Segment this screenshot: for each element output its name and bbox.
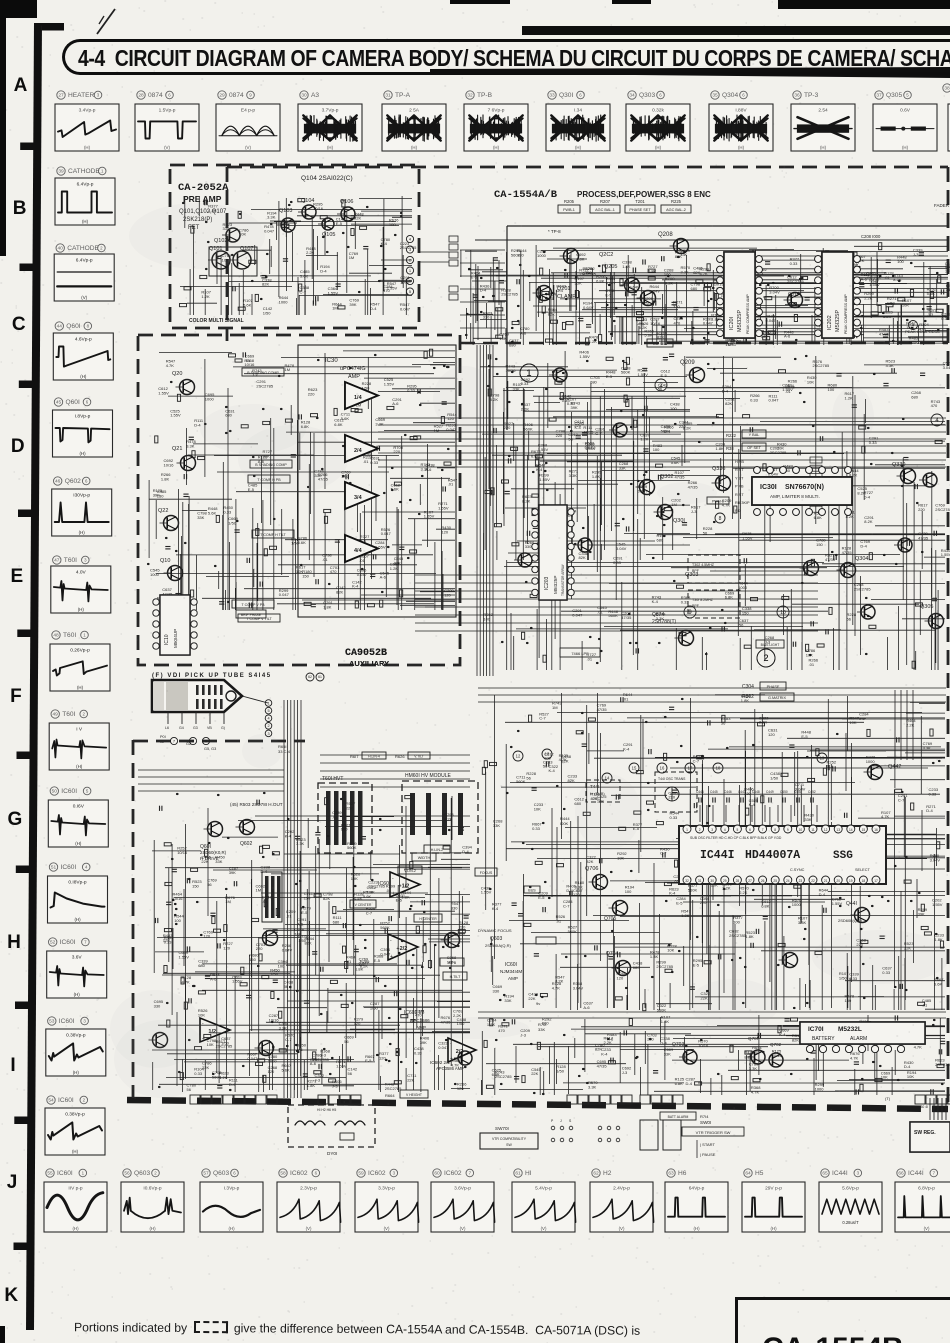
svg-text:PRE AMP: PRE AMP xyxy=(183,194,222,204)
svg-text:T44I OSC TRANS: T44I OSC TRANS xyxy=(658,777,686,781)
svg-text:10/16: 10/16 xyxy=(177,850,188,855)
svg-text:61: 61 xyxy=(318,675,322,679)
svg-text:S: S xyxy=(569,1119,572,1123)
svg-text:6: 6 xyxy=(233,1171,236,1176)
svg-text:4.7K: 4.7K xyxy=(182,979,191,984)
svg-text:DY0I: DY0I xyxy=(327,1151,337,1156)
svg-text:10K: 10K xyxy=(907,1074,914,1079)
svg-text:100: 100 xyxy=(897,259,904,264)
svg-text:M5I325P: M5I325P xyxy=(737,310,743,332)
svg-text:330: 330 xyxy=(451,905,458,910)
svg-text:56: 56 xyxy=(703,530,708,535)
svg-text:10K: 10K xyxy=(351,876,358,881)
svg-text:FWB-1: FWB-1 xyxy=(563,208,575,212)
svg-text:(H): (H) xyxy=(84,145,91,150)
svg-text:64Vp-p: 64Vp-p xyxy=(689,1186,705,1192)
svg-text:17: 17 xyxy=(874,879,878,883)
svg-text:P: P xyxy=(551,1119,554,1123)
svg-text:IC60I: IC60I xyxy=(58,1097,74,1104)
svg-text:6: 6 xyxy=(85,479,88,484)
svg-text:L6: L6 xyxy=(165,726,169,730)
svg-text:.01: .01 xyxy=(884,275,890,280)
svg-text:1.55V: 1.55V xyxy=(481,890,492,895)
svg-text:2: 2 xyxy=(100,246,103,251)
svg-text:B: B xyxy=(13,198,27,219)
svg-text:.01: .01 xyxy=(922,1002,928,1007)
svg-text:PHASE SET: PHASE SET xyxy=(629,208,651,212)
svg-text:3.6V: 3.6V xyxy=(72,955,83,961)
svg-text:150: 150 xyxy=(192,884,199,889)
svg-text:220: 220 xyxy=(556,433,563,438)
svg-text:6: 6 xyxy=(86,400,89,405)
svg-text:2SC2785: 2SC2785 xyxy=(312,1057,329,1062)
svg-text:1.55V: 1.55V xyxy=(539,477,550,482)
svg-text:C.SYNC: C.SYNC xyxy=(790,868,805,872)
svg-text:0.047: 0.047 xyxy=(438,1045,449,1050)
svg-text:3: 3 xyxy=(711,828,713,832)
svg-text:.01: .01 xyxy=(363,459,369,464)
svg-text:82K: 82K xyxy=(579,555,586,560)
svg-text:0.33: 0.33 xyxy=(750,397,759,402)
svg-text:10/16: 10/16 xyxy=(313,206,324,211)
svg-text:33K: 33K xyxy=(538,1027,545,1032)
svg-text:1.2K: 1.2K xyxy=(201,294,210,299)
svg-text:2SC2785: 2SC2785 xyxy=(935,507,950,512)
svg-text:J-3: J-3 xyxy=(913,252,919,257)
svg-text:1000: 1000 xyxy=(815,1086,825,1091)
svg-text:BRIF PHASE: BRIF PHASE xyxy=(241,613,262,617)
svg-text:1.8K: 1.8K xyxy=(745,934,754,939)
svg-text:D-4: D-4 xyxy=(370,306,377,311)
svg-text:8.2K: 8.2K xyxy=(864,519,873,524)
svg-text:(H): (H) xyxy=(493,145,500,150)
svg-text:Q603: Q603 xyxy=(213,1170,229,1177)
svg-text:IC10: IC10 xyxy=(164,634,170,645)
svg-text:D-4: D-4 xyxy=(926,808,933,813)
svg-text:120: 120 xyxy=(354,1021,361,1026)
svg-text:SW0I: SW0I xyxy=(700,1120,711,1125)
svg-text:11: 11 xyxy=(811,828,815,832)
svg-text:56: 56 xyxy=(847,617,852,622)
svg-text:4.7K: 4.7K xyxy=(722,502,731,507)
svg-text:Q103: Q103 xyxy=(279,208,292,214)
svg-text:+: + xyxy=(392,891,395,897)
svg-text:4.7K: 4.7K xyxy=(451,1063,460,1068)
svg-text:SELECT: SELECT xyxy=(855,868,870,872)
svg-text:C-7: C-7 xyxy=(366,910,373,915)
svg-text:47/35: 47/35 xyxy=(597,707,608,712)
svg-text:61: 61 xyxy=(515,1171,521,1177)
svg-text:29: 29 xyxy=(219,93,225,99)
svg-text:1.55V: 1.55V xyxy=(387,286,398,291)
svg-text:1000: 1000 xyxy=(537,253,547,258)
svg-text:330: 330 xyxy=(525,544,532,549)
svg-text:D-4: D-4 xyxy=(261,869,268,874)
svg-text:Y ST: Y ST xyxy=(735,476,744,480)
svg-text:K-4: K-4 xyxy=(669,891,676,896)
svg-text:220: 220 xyxy=(393,449,400,454)
svg-text:C304: C304 xyxy=(742,684,754,690)
svg-text:(H): (H) xyxy=(902,145,909,150)
svg-text:39K: 39K xyxy=(349,302,356,307)
svg-text:PROCESS,DEF,POWER,SSG 8 ENC: PROCESS,DEF,POWER,SSG 8 ENC xyxy=(577,190,711,199)
svg-text:15: 15 xyxy=(862,828,866,832)
svg-text:BUS: BUS xyxy=(528,889,536,893)
svg-text:0.047: 0.047 xyxy=(359,961,370,966)
svg-text:680: 680 xyxy=(911,394,918,399)
svg-text:2SC2785: 2SC2785 xyxy=(729,933,746,938)
svg-text:(T): (T) xyxy=(885,1096,891,1101)
svg-text:J-3: J-3 xyxy=(252,373,258,378)
svg-text:4.0V: 4.0V xyxy=(76,570,87,576)
svg-text:1: 1 xyxy=(526,368,531,378)
svg-text:470: 470 xyxy=(330,569,337,574)
svg-text:6.8Vp-p: 6.8Vp-p xyxy=(918,1186,935,1192)
svg-text:14: 14 xyxy=(849,828,853,832)
svg-text:(H): (H) xyxy=(72,1226,79,1231)
svg-text:560K: 560K xyxy=(688,887,698,892)
svg-text:3.6Vp-p: 3.6Vp-p xyxy=(454,1186,471,1192)
svg-text:1.55V: 1.55V xyxy=(579,354,590,359)
svg-text:1/50: 1/50 xyxy=(221,1041,230,1046)
svg-text:20: 20 xyxy=(836,879,840,883)
svg-text:4.7K: 4.7K xyxy=(850,1055,859,1060)
svg-text:CA-2052A: CA-2052A xyxy=(178,182,229,194)
svg-text:D-4: D-4 xyxy=(722,388,729,393)
svg-text:1.2K: 1.2K xyxy=(390,566,399,571)
svg-text:30: 30 xyxy=(710,879,714,883)
svg-text:VTR COMPATIBILITY: VTR COMPATIBILITY xyxy=(492,1137,527,1141)
svg-text:R7I4: R7I4 xyxy=(700,1114,709,1119)
svg-text:Q104 2SAI022(C): Q104 2SAI022(C) xyxy=(301,175,353,182)
svg-text:0.33: 0.33 xyxy=(223,510,232,515)
svg-text:6: 6 xyxy=(579,93,582,98)
svg-text:C-7: C-7 xyxy=(300,290,307,295)
svg-text:Q303: Q303 xyxy=(639,92,655,99)
svg-text:0.047: 0.047 xyxy=(279,592,290,597)
svg-text:SN76670(N): SN76670(N) xyxy=(785,484,824,491)
svg-text:1.8K: 1.8K xyxy=(323,605,332,610)
svg-text:1000: 1000 xyxy=(866,759,876,764)
svg-text:220: 220 xyxy=(945,268,950,273)
svg-text:3.3K: 3.3K xyxy=(279,1025,288,1030)
svg-text:E-5: E-5 xyxy=(605,293,612,298)
svg-text:7: 7 xyxy=(84,940,87,945)
svg-text:38: 38 xyxy=(944,86,950,92)
svg-text:1.55V: 1.55V xyxy=(232,979,243,984)
svg-text:M5I325P: M5I325P xyxy=(835,310,841,332)
svg-text:5.6K: 5.6K xyxy=(282,1068,291,1073)
svg-text:0.64V: 0.64V xyxy=(629,285,640,290)
svg-text:(V): (V) xyxy=(541,1226,547,1231)
svg-text:150: 150 xyxy=(302,573,309,578)
svg-text:6.8K: 6.8K xyxy=(334,422,343,427)
svg-text:IC60I: IC60I xyxy=(60,939,76,946)
svg-text:150: 150 xyxy=(249,957,256,962)
svg-text:6: 6 xyxy=(409,278,412,283)
svg-text:E-5: E-5 xyxy=(676,901,683,906)
svg-text:8.2K: 8.2K xyxy=(444,816,453,821)
svg-text:28: 28 xyxy=(138,93,144,99)
svg-text:D-4: D-4 xyxy=(480,288,487,293)
svg-text:IC602: IC602 xyxy=(290,1170,308,1177)
svg-text:23: 23 xyxy=(799,879,803,883)
svg-text:E-5: E-5 xyxy=(396,898,403,903)
svg-text:(H): (H) xyxy=(693,1226,700,1231)
svg-text:12: 12 xyxy=(824,828,828,832)
svg-text:29: 29 xyxy=(723,879,727,883)
svg-text:7: 7 xyxy=(173,738,176,743)
svg-text:5: 5 xyxy=(86,789,89,794)
svg-text:M5232L: M5232L xyxy=(838,1026,862,1033)
svg-text:Q705: Q705 xyxy=(604,916,616,922)
svg-text:T COMP H TILT: T COMP H TILT xyxy=(260,533,286,537)
svg-text:(V): (V) xyxy=(245,145,251,150)
svg-text:H6: H6 xyxy=(678,1170,687,1177)
svg-text:HM60I HV MODULE: HM60I HV MODULE xyxy=(405,773,452,779)
svg-text:Q603: Q603 xyxy=(490,936,502,942)
svg-text:(H): (H) xyxy=(655,145,662,150)
svg-text:G.MATRIX: G.MATRIX xyxy=(768,696,787,700)
svg-text:(H): (H) xyxy=(75,841,82,846)
svg-text:I V: I V xyxy=(76,727,83,733)
svg-text:R207: R207 xyxy=(600,199,611,204)
svg-text:1.8K: 1.8K xyxy=(592,474,601,479)
svg-text:3: 3 xyxy=(97,93,100,98)
svg-text:33K: 33K xyxy=(493,823,500,828)
svg-text:TRANSISTOR ARRAY: TRANSISTOR ARRAY xyxy=(561,563,565,596)
svg-text:Q22: Q22 xyxy=(158,508,168,514)
svg-text:0874: 0874 xyxy=(229,92,244,99)
svg-text:220: 220 xyxy=(256,946,263,951)
svg-text:IC44I: IC44I xyxy=(832,1170,848,1177)
svg-text:220: 220 xyxy=(308,392,315,397)
svg-text:560K: 560K xyxy=(608,613,618,618)
svg-text:2.4Vp-p: 2.4Vp-p xyxy=(613,1186,630,1192)
svg-text:54: 54 xyxy=(48,1098,54,1104)
svg-text:120: 120 xyxy=(573,892,580,897)
svg-text:0.047: 0.047 xyxy=(638,489,649,494)
svg-text:4.7K: 4.7K xyxy=(881,814,890,819)
svg-text:(H): (H) xyxy=(76,764,83,769)
svg-text:63: 63 xyxy=(668,1171,674,1177)
svg-text:G5, G3: G5, G3 xyxy=(204,747,216,751)
svg-text:470: 470 xyxy=(638,322,645,327)
svg-text:I: I xyxy=(10,1055,15,1076)
svg-text:16: 16 xyxy=(874,828,878,832)
svg-text:1: 1 xyxy=(101,169,104,174)
svg-text:3.3K: 3.3K xyxy=(923,745,932,750)
svg-text:.01: .01 xyxy=(597,609,603,614)
svg-text:120: 120 xyxy=(441,529,448,534)
svg-text:IC602 2/2: IC602 2/2 xyxy=(430,1060,450,1065)
svg-text:0.33: 0.33 xyxy=(567,401,576,406)
svg-text:.01: .01 xyxy=(809,662,815,667)
svg-text:8.2K: 8.2K xyxy=(522,499,531,504)
svg-text:M5I325P: M5I325P xyxy=(553,576,558,594)
svg-text:.01: .01 xyxy=(623,697,629,702)
svg-text:0874: 0874 xyxy=(148,92,163,99)
svg-text:33K: 33K xyxy=(575,281,582,286)
svg-text:A-6: A-6 xyxy=(583,1005,590,1010)
svg-text:T60I: T60I xyxy=(62,711,75,718)
svg-text:51: 51 xyxy=(51,865,57,871)
svg-text:1.55V: 1.55V xyxy=(638,372,649,377)
svg-text:3.04V: 3.04V xyxy=(943,365,950,370)
svg-text:10K: 10K xyxy=(534,807,541,812)
svg-text:18: 18 xyxy=(862,879,866,883)
svg-text:(H): (H) xyxy=(72,1149,79,1154)
svg-text:D-4: D-4 xyxy=(686,1081,693,1086)
svg-text:150: 150 xyxy=(742,610,749,615)
svg-text:120: 120 xyxy=(457,1086,464,1091)
svg-text:J-3: J-3 xyxy=(859,716,865,721)
svg-text:CATHODE: CATHODE xyxy=(67,245,99,252)
svg-text:6.8K: 6.8K xyxy=(492,1072,501,1077)
svg-text:K: K xyxy=(4,1285,18,1306)
svg-text:560K: 560K xyxy=(568,929,578,934)
svg-text:10K: 10K xyxy=(667,948,674,953)
svg-text:33K: 33K xyxy=(619,465,626,470)
svg-text:120: 120 xyxy=(517,253,524,258)
svg-text:82K: 82K xyxy=(725,401,732,406)
svg-text:(H): (H) xyxy=(82,219,89,224)
svg-text:3.3K: 3.3K xyxy=(886,363,895,368)
svg-text:33K: 33K xyxy=(680,252,687,257)
svg-text:BPF: BPF xyxy=(692,604,700,608)
svg-text:1: 1 xyxy=(82,1171,85,1176)
svg-text:(V): (V) xyxy=(306,1226,312,1231)
svg-text:47/35: 47/35 xyxy=(597,1064,608,1069)
svg-text:39K: 39K xyxy=(918,912,925,917)
svg-text:33: 33 xyxy=(549,93,555,99)
svg-text:560K: 560K xyxy=(347,845,357,850)
svg-text:3.04V: 3.04V xyxy=(573,985,584,990)
svg-text:+: + xyxy=(390,954,393,960)
svg-text:(H): (H) xyxy=(820,145,827,150)
svg-text:52: 52 xyxy=(50,940,56,946)
svg-text:120: 120 xyxy=(223,946,230,951)
svg-text:3.7Vp-p: 3.7Vp-p xyxy=(322,108,339,114)
svg-text:64: 64 xyxy=(745,1171,751,1177)
svg-text:8.2K: 8.2K xyxy=(744,1055,753,1060)
svg-text:2.2K: 2.2K xyxy=(759,720,768,725)
svg-text:D-4: D-4 xyxy=(819,892,826,897)
svg-text:8: 8 xyxy=(774,828,776,832)
svg-text:82K: 82K xyxy=(548,312,555,317)
svg-text:46: 46 xyxy=(55,479,61,485)
svg-text:D-4: D-4 xyxy=(864,494,871,499)
svg-text:6.8K: 6.8K xyxy=(814,515,823,520)
svg-text:65: 65 xyxy=(822,1171,828,1177)
svg-text:1.55V: 1.55V xyxy=(170,413,181,418)
svg-text:3.3K: 3.3K xyxy=(186,444,195,449)
svg-text:82K: 82K xyxy=(262,282,269,287)
svg-text:Q2C2: Q2C2 xyxy=(599,252,613,258)
svg-text:AMP, LIMITER 8 MULTI.: AMP, LIMITER 8 MULTI. xyxy=(770,494,820,499)
svg-text:IIV p-p: IIV p-p xyxy=(68,1186,82,1192)
svg-text:0.32k: 0.32k xyxy=(652,108,664,114)
svg-text:220: 220 xyxy=(918,507,925,512)
svg-text:4.7K: 4.7K xyxy=(559,757,568,762)
svg-text:5: 5 xyxy=(409,289,412,294)
svg-text:E-5: E-5 xyxy=(374,958,381,963)
svg-text:10/16: 10/16 xyxy=(164,462,175,467)
svg-text:22K: 22K xyxy=(346,806,353,811)
svg-text:1: 1 xyxy=(267,701,269,705)
svg-text:1/50: 1/50 xyxy=(556,1068,565,1073)
svg-text:56: 56 xyxy=(658,387,663,392)
svg-text:I0.6Vp-p: I0.6Vp-p xyxy=(143,1186,161,1192)
svg-text:Q30I: Q30I xyxy=(673,518,685,524)
svg-text:4: 4 xyxy=(409,236,412,241)
svg-text:K-4: K-4 xyxy=(575,425,582,430)
svg-text:TP-B: TP-B xyxy=(477,92,493,99)
svg-text:0.047: 0.047 xyxy=(380,951,391,956)
svg-text:10/16: 10/16 xyxy=(506,368,517,373)
svg-text:12: 12 xyxy=(516,754,521,759)
svg-text:AMP: AMP xyxy=(348,374,360,380)
svg-text:.01: .01 xyxy=(286,913,292,918)
svg-text:A-6: A-6 xyxy=(210,976,217,981)
svg-text:220: 220 xyxy=(546,296,553,301)
svg-text:10K: 10K xyxy=(207,1042,214,1047)
svg-text:1.8K: 1.8K xyxy=(661,1019,670,1024)
svg-text:100: 100 xyxy=(828,387,835,392)
svg-text:E-5: E-5 xyxy=(301,910,308,915)
svg-text:100: 100 xyxy=(670,406,677,411)
svg-text:120: 120 xyxy=(268,1069,275,1074)
svg-text:100: 100 xyxy=(389,222,396,227)
svg-text:* TP-8: * TP-8 xyxy=(548,229,561,234)
svg-text:.01: .01 xyxy=(386,888,392,893)
svg-text:100: 100 xyxy=(447,959,454,964)
svg-text:A: A xyxy=(14,75,28,96)
svg-text:33K: 33K xyxy=(946,287,950,292)
svg-text:VTR TRIGGER SW: VTR TRIGGER SW xyxy=(696,1130,731,1135)
svg-text:22K: 22K xyxy=(531,1071,538,1076)
svg-text:220: 220 xyxy=(459,924,466,929)
svg-text:2SC2785: 2SC2785 xyxy=(501,292,518,297)
svg-text:0.047: 0.047 xyxy=(264,228,275,233)
svg-text:TP-A: TP-A xyxy=(395,92,411,99)
svg-text:AMP: AMP xyxy=(508,976,518,981)
svg-text:1.55V: 1.55V xyxy=(424,514,435,519)
svg-text:100: 100 xyxy=(174,918,181,923)
svg-text:.01: .01 xyxy=(359,558,365,563)
svg-text:T COMP V PB: T COMP V PB xyxy=(241,603,265,607)
svg-text:3: 3 xyxy=(857,1171,860,1176)
svg-text:C: C xyxy=(12,314,26,335)
svg-text:J-3: J-3 xyxy=(691,509,697,514)
svg-text:62: 62 xyxy=(308,675,312,679)
svg-text:32: 32 xyxy=(467,93,473,99)
svg-text:G3: G3 xyxy=(193,726,198,730)
svg-text:8: 8 xyxy=(87,324,90,329)
svg-text:1.8K: 1.8K xyxy=(367,889,376,894)
svg-text:COLOR MULTI SIGNAL: COLOR MULTI SIGNAL xyxy=(189,318,244,324)
svg-text:IC30I: IC30I xyxy=(760,484,777,491)
svg-text:3.3K: 3.3K xyxy=(569,473,578,478)
svg-text:0.33: 0.33 xyxy=(370,460,379,465)
svg-text:6.8K: 6.8K xyxy=(648,269,657,274)
svg-text:31: 31 xyxy=(698,879,702,883)
svg-text:Q304: Q304 xyxy=(722,92,738,99)
svg-text:E-5: E-5 xyxy=(471,275,478,280)
svg-text:H: H xyxy=(7,932,21,953)
svg-text:59: 59 xyxy=(358,1171,364,1177)
svg-text:82K: 82K xyxy=(657,335,664,340)
